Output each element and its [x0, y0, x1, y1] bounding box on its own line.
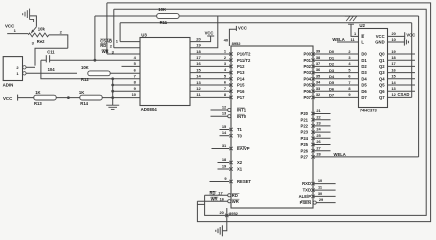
wire P04 to latch D4: [313, 78, 359, 80]
svg-text:VCC: VCC: [3, 96, 13, 101]
latch Q2 output pin 17: [388, 65, 416, 67]
resistor R14: [80, 95, 102, 100]
svg-text:8952: 8952: [232, 41, 242, 46]
svg-text:29: 29: [319, 197, 324, 202]
MCU pin 7 P16: [229, 90, 232, 93]
wire ground hook: [30, 19, 34, 22]
svg-text:30: 30: [318, 191, 322, 196]
wire CS net top: [120, 22, 412, 24]
latch Q0 output pin 19: [388, 53, 416, 55]
svg-text:14: 14: [222, 130, 227, 135]
svg-text:34: 34: [316, 80, 321, 85]
svg-text:2: 2: [224, 55, 227, 60]
svg-text:P14: P14: [237, 76, 245, 81]
wire latch pin20: [388, 35, 405, 37]
svg-text:74HC373: 74HC373: [360, 108, 378, 113]
svg-text:18: 18: [391, 55, 396, 60]
svg-text:RXD: RXD: [302, 181, 311, 186]
svg-text:ADIN: ADIN: [3, 83, 14, 88]
MCU pin16 WR: [228, 200, 231, 203]
latch Q7 output pin 12 CSAD: [388, 96, 412, 98]
potentiometer Re2 wiper arrow: [33, 27, 37, 32]
svg-text:P12: P12: [237, 64, 245, 69]
svg-text:WELA: WELA: [332, 37, 344, 42]
svg-text:5: 5: [348, 67, 351, 72]
svg-text:9: 9: [134, 86, 137, 91]
svg-text:EA/VP: EA/VP: [237, 146, 250, 151]
MCU pin 39 P00: [311, 52, 314, 55]
wire data DB7 ADC to MCU: [190, 96, 231, 98]
svg-text:8952: 8952: [229, 211, 239, 216]
wire data DB4 ADC to MCU: [190, 78, 231, 80]
wire CLK left riser to ADC pin4: [94, 16, 96, 60]
svg-text:7: 7: [348, 80, 350, 85]
MCU pin13 INT0: [228, 115, 231, 118]
svg-text:D6: D6: [329, 86, 335, 91]
wire R14 to ADC pin10: [102, 97, 140, 99]
svg-text:P17: P17: [237, 95, 245, 100]
svg-text:39: 39: [316, 49, 321, 54]
wire ADC pin3: [107, 53, 140, 55]
svg-text:28: 28: [316, 152, 321, 157]
svg-text:33: 33: [316, 86, 321, 91]
svg-text:104: 104: [48, 67, 56, 72]
svg-text:Q1: Q1: [379, 58, 385, 63]
MCU pin 6 P15: [229, 83, 232, 86]
svg-text:38: 38: [316, 55, 321, 60]
svg-text:D1: D1: [329, 55, 335, 60]
MCU pin 35 P04: [311, 77, 314, 80]
svg-text:D4: D4: [329, 74, 335, 79]
svg-text:P16: P16: [237, 89, 245, 94]
svg-text:32: 32: [316, 92, 321, 97]
wire data DB2 ADC to MCU: [190, 65, 231, 67]
wire ground to pot wiper: [30, 16, 37, 27]
svg-text:10k: 10k: [38, 27, 46, 32]
svg-text:3: 3: [348, 55, 351, 60]
svg-text:22: 22: [316, 114, 321, 119]
svg-text:X2: X2: [237, 160, 243, 165]
svg-text:19: 19: [222, 163, 227, 168]
svg-text:6: 6: [348, 74, 351, 79]
svg-text:T1: T1: [237, 127, 243, 132]
svg-text:2: 2: [60, 29, 63, 34]
MCU pin 23 P22: [311, 124, 314, 127]
svg-text:9: 9: [224, 176, 227, 181]
wire P06 to latch D6: [313, 90, 359, 92]
svg-text:RESET: RESET: [237, 179, 251, 184]
junction CLK node: [94, 59, 97, 62]
svg-text:24: 24: [316, 127, 321, 132]
svg-text:PSEN: PSEN: [300, 200, 311, 205]
svg-text:D0: D0: [361, 52, 367, 57]
svg-text:P26: P26: [301, 148, 309, 153]
wire data DB5 ADC to MCU: [190, 84, 231, 86]
wire ADIN pin1 to R12: [26, 72, 77, 74]
svg-text:18: 18: [222, 157, 227, 162]
wire R12 to ADC pin6: [110, 72, 140, 74]
MCU pin 33 P06: [311, 90, 314, 93]
svg-text:Q3: Q3: [379, 70, 385, 75]
svg-text:INT1: INT1: [237, 108, 247, 113]
svg-text:1K: 1K: [35, 90, 40, 95]
svg-text:6: 6: [134, 67, 137, 72]
svg-text:Q4: Q4: [379, 76, 385, 81]
svg-text:19: 19: [196, 43, 201, 48]
wire ADC pin1: [120, 41, 140, 43]
MCU pin 5 P14: [229, 77, 232, 80]
svg-text:P02: P02: [304, 64, 312, 69]
svg-text:15: 15: [196, 67, 201, 72]
svg-text:31: 31: [222, 143, 227, 148]
junction R13-R14: [67, 96, 70, 99]
latch Q1 output pin 18: [388, 59, 416, 61]
svg-text:D1: D1: [361, 58, 367, 63]
svg-text:D7: D7: [329, 93, 335, 98]
svg-text:23: 23: [316, 121, 321, 126]
wire OE ground to latch pin1: [351, 24, 359, 36]
resistor R12: [88, 71, 110, 76]
svg-text:2: 2: [110, 43, 113, 48]
latch Q5 output pin 14: [388, 84, 416, 86]
svg-text:12: 12: [196, 86, 201, 91]
svg-text:VCC: VCC: [205, 30, 214, 35]
wire CLK net top: [95, 15, 419, 17]
wire data DB3 ADC to MCU: [190, 72, 231, 74]
svg-text:Re2: Re2: [37, 39, 45, 44]
svg-text:D3: D3: [361, 70, 367, 75]
wire pot pin2 down: [49, 35, 68, 48]
svg-text:25: 25: [316, 133, 321, 138]
svg-text:GND: GND: [375, 40, 384, 45]
MCU pin11 TXD: [311, 188, 314, 191]
svg-text:11: 11: [318, 185, 323, 190]
svg-text:Q7: Q7: [379, 95, 385, 100]
svg-text:18: 18: [196, 49, 201, 54]
svg-text:P01: P01: [304, 58, 312, 63]
svg-text:8: 8: [224, 92, 227, 97]
ground (MCU, rotated): [216, 225, 223, 236]
svg-text:INT0: INT0: [237, 114, 247, 119]
wire P27 WELA to latch riser: [313, 156, 419, 158]
MCU pin 28 P27: [311, 155, 314, 158]
latch Q6 output pin 13: [388, 90, 416, 92]
wire ADC pin20 to VCC: [190, 36, 211, 42]
ADIN pin 2 bubble: [23, 66, 26, 69]
wire P26 stub: [313, 150, 331, 152]
svg-text:36: 36: [316, 67, 321, 72]
svg-text:P21: P21: [301, 117, 309, 122]
wire ADC pin2: [114, 47, 140, 49]
wire P25 stub: [313, 144, 331, 146]
wire to ADC pin8: [113, 84, 140, 86]
svg-text:19: 19: [391, 49, 396, 54]
potentiometer Re2 10k: [28, 33, 49, 37]
svg-text:4: 4: [348, 61, 351, 66]
svg-text:CSAD: CSAD: [398, 92, 410, 97]
svg-text:D5: D5: [361, 83, 367, 88]
svg-text:35: 35: [316, 73, 321, 78]
MCU pin 37 P02: [311, 65, 314, 68]
svg-text:10: 10: [392, 37, 396, 42]
svg-text:P07: P07: [304, 95, 312, 100]
svg-text:U3: U3: [141, 32, 147, 37]
wire P20 stub: [313, 113, 331, 115]
svg-text:Q6: Q6: [379, 89, 385, 94]
MCU pin20 GND stub: [225, 214, 228, 217]
svg-text:9: 9: [348, 92, 351, 97]
wire P01 to latch D1: [313, 59, 359, 61]
svg-text:R14: R14: [80, 101, 88, 106]
wire P21 stub: [313, 119, 331, 121]
wire MCU pin20 to ground: [222, 208, 226, 231]
svg-text:Q2: Q2: [379, 64, 385, 69]
svg-text:D2: D2: [361, 64, 367, 69]
wire CS left riser: [119, 23, 121, 42]
svg-text:12: 12: [392, 92, 397, 97]
svg-text:7: 7: [224, 86, 226, 91]
svg-text:20: 20: [392, 31, 396, 36]
svg-text:1: 1: [116, 38, 119, 43]
svg-text:17: 17: [218, 191, 222, 196]
ground (latch pin10, rotated): [404, 38, 408, 45]
svg-text:P10/T2: P10/T2: [237, 52, 251, 57]
svg-text:T0: T0: [237, 133, 243, 138]
MCU pin 25 P24: [311, 137, 314, 140]
wire P22 stub: [313, 125, 331, 127]
wire data DB1 ADC to MCU: [190, 59, 231, 61]
ground (analog): [106, 105, 119, 109]
svg-text:ALE/P: ALE/P: [299, 194, 312, 199]
svg-text:37: 37: [316, 61, 320, 66]
MCU pin 3 P12: [229, 65, 232, 68]
op-amp U3 AD0804 box: [140, 38, 190, 106]
MCU pin 32 P07: [311, 96, 314, 99]
svg-text:D6: D6: [361, 89, 367, 94]
svg-text:P24: P24: [301, 136, 309, 141]
resistor R13: [34, 95, 56, 100]
svg-text:17: 17: [196, 55, 201, 60]
wire C11 left stub: [41, 59, 46, 61]
svg-text:D5: D5: [329, 80, 335, 85]
svg-text:VCC: VCC: [376, 34, 385, 39]
svg-text:WELA: WELA: [334, 152, 346, 157]
svg-text:15: 15: [222, 124, 227, 129]
IC U1 8952 box: [231, 46, 313, 208]
svg-text:3: 3: [32, 41, 35, 46]
wire latch pin10: [388, 41, 405, 43]
svg-text:7: 7: [134, 74, 137, 79]
svg-text:10: 10: [132, 92, 137, 97]
svg-text:AD0804: AD0804: [141, 107, 158, 112]
wire CSAD riser: [411, 23, 413, 98]
wire WR net loop: [107, 3, 431, 222]
IC U2 74HC373 box: [359, 29, 388, 108]
wire C11 riser to ADC pin7: [41, 60, 140, 79]
svg-text:P03: P03: [304, 70, 312, 75]
svg-text:12: 12: [222, 104, 227, 109]
wire pot node to ADIN pin2: [35, 48, 68, 65]
svg-text:RD: RD: [232, 193, 238, 198]
svg-text:P00: P00: [304, 52, 312, 57]
svg-text:P20: P20: [301, 111, 309, 116]
MCU pin30 ALE/P: [311, 195, 314, 198]
wire C11 to ADC pin4: [50, 59, 140, 61]
MCU pin 21 P20: [311, 112, 314, 115]
MCU pin 36 P03: [311, 71, 314, 74]
wire data DB0 ADC to MCU: [190, 53, 231, 55]
ground (latch OE): [345, 16, 357, 24]
svg-text:D7: D7: [361, 95, 367, 100]
wire to ADC pin9: [113, 90, 140, 92]
svg-text:20: 20: [220, 210, 224, 215]
svg-text:21: 21: [316, 108, 321, 113]
MCU pin31 EA/VP: [229, 147, 232, 150]
svg-text:Q5: Q5: [379, 83, 385, 88]
wire WR net left riser: [106, 3, 108, 54]
wire RD-WR jog: [197, 203, 204, 205]
MCU pin 34 P05: [311, 83, 314, 86]
junction ground node: [111, 96, 114, 99]
svg-text:1: 1: [354, 31, 357, 36]
connector ADIN: [3, 57, 22, 81]
svg-text:1K: 1K: [79, 90, 84, 95]
svg-text:16: 16: [391, 67, 396, 72]
svg-text:R12: R12: [81, 77, 89, 82]
svg-text:16: 16: [196, 61, 201, 66]
svg-text:D2: D2: [329, 62, 335, 67]
svg-text:2: 2: [348, 49, 351, 54]
junction pin7 node: [111, 77, 114, 80]
wire ADIN pin2 stub: [26, 66, 35, 68]
svg-text:C11: C11: [47, 50, 55, 55]
latch Q3 output pin 16: [388, 72, 416, 74]
MCU pin 26 P25: [311, 143, 314, 146]
wire ADC pin5 stub: [122, 65, 141, 67]
svg-text:14: 14: [391, 80, 396, 85]
resistor R11: [157, 14, 179, 19]
svg-text:15: 15: [391, 74, 396, 79]
MCU pin18 X2: [229, 161, 232, 164]
ground (top left, rotated): [23, 9, 30, 20]
MCU pin9 RESET: [229, 180, 232, 183]
svg-text:10K: 10K: [81, 65, 89, 70]
svg-text:U2: U2: [359, 23, 365, 28]
svg-text:D3: D3: [329, 68, 335, 73]
svg-text:P23: P23: [301, 130, 309, 135]
wire VCC to R13: [18, 97, 34, 99]
svg-text:Q0: Q0: [379, 52, 385, 57]
svg-text:10: 10: [318, 178, 322, 183]
svg-text:26: 26: [316, 139, 321, 144]
svg-text:P11/T2: P11/T2: [237, 58, 251, 63]
MCU pin 27 P26: [311, 149, 314, 152]
svg-text:P27: P27: [301, 155, 309, 160]
svg-text:VCC: VCC: [238, 25, 247, 30]
svg-text:P05: P05: [304, 83, 312, 88]
MCU pin17 RD: [228, 194, 231, 197]
ADIN pin 1 bubble: [23, 72, 26, 75]
svg-text:D0: D0: [329, 49, 335, 54]
wire ground column: [112, 79, 114, 105]
svg-text:D4: D4: [361, 76, 367, 81]
MCU pin19 X1: [229, 167, 232, 170]
svg-text:L: L: [361, 40, 364, 45]
svg-text:13: 13: [391, 86, 396, 91]
svg-text:11: 11: [196, 92, 201, 97]
MCU pin15 T1: [229, 128, 232, 131]
wire data DB6 ADC to MCU: [190, 90, 231, 92]
svg-text:27: 27: [316, 145, 320, 150]
svg-text:5: 5: [134, 61, 137, 66]
svg-text:13: 13: [222, 111, 227, 116]
wire P07 to latch D7: [313, 96, 359, 98]
svg-text:X1: X1: [237, 167, 243, 172]
MCU pin14 T0: [229, 134, 232, 137]
wire R13 to R14: [56, 97, 80, 99]
svg-text:6: 6: [224, 80, 227, 85]
wire P23 stub: [313, 131, 331, 133]
MCU pin10 RXD: [311, 182, 314, 185]
svg-text:P04: P04: [304, 76, 312, 81]
wire MCU VCC pin40: [229, 29, 236, 46]
svg-text:P15: P15: [237, 83, 245, 88]
svg-text:13: 13: [196, 80, 201, 85]
svg-text:R13: R13: [34, 101, 42, 106]
svg-text:VCC: VCC: [406, 33, 415, 38]
wire ADC pin19 to CLK net: [190, 16, 218, 48]
svg-text:P22: P22: [301, 124, 309, 129]
MCU pin 2 P11: [229, 59, 232, 62]
wire P24 stub: [313, 137, 331, 139]
MCU pin 38 P01: [311, 59, 314, 62]
MCU pin 1 P10: [229, 52, 232, 55]
wire P03 to latch D3: [313, 72, 359, 74]
svg-text:WR: WR: [232, 199, 239, 204]
svg-text:TXD: TXD: [303, 188, 311, 193]
svg-text:40: 40: [224, 38, 229, 43]
capacitor C11 104: [46, 55, 49, 62]
wire RD net loop: [114, 9, 426, 215]
svg-text:5: 5: [224, 73, 227, 78]
wire RD net left riser: [113, 9, 115, 48]
svg-text:P25: P25: [301, 142, 309, 147]
svg-text:8: 8: [134, 80, 137, 85]
svg-text:R11: R11: [160, 20, 168, 25]
wire P05 to latch D5: [313, 84, 359, 86]
wire latch pin11 stub: [337, 41, 359, 43]
MCU pin 4 P13: [229, 71, 232, 74]
svg-text:10K: 10K: [158, 7, 166, 12]
MCU pin 24 P23: [311, 130, 314, 133]
MCU pin12 INT1: [228, 108, 231, 111]
svg-text:1: 1: [14, 28, 17, 33]
latch Q4 output pin 15: [388, 78, 416, 80]
wire P00 to latch D0: [313, 53, 359, 55]
wire VCC to pot: [7, 33, 28, 35]
svg-text:11: 11: [351, 37, 356, 42]
svg-text:4: 4: [224, 67, 227, 72]
wire WELA riser: [418, 16, 420, 157]
svg-text:P13: P13: [237, 70, 245, 75]
MCU pin 22 P21: [311, 118, 314, 121]
svg-text:17: 17: [391, 61, 395, 66]
svg-text:8: 8: [348, 86, 351, 91]
svg-text:4: 4: [134, 55, 137, 60]
MCU pin29 PSEN: [313, 201, 316, 204]
svg-text:1: 1: [224, 49, 227, 54]
svg-text:20: 20: [196, 36, 201, 41]
